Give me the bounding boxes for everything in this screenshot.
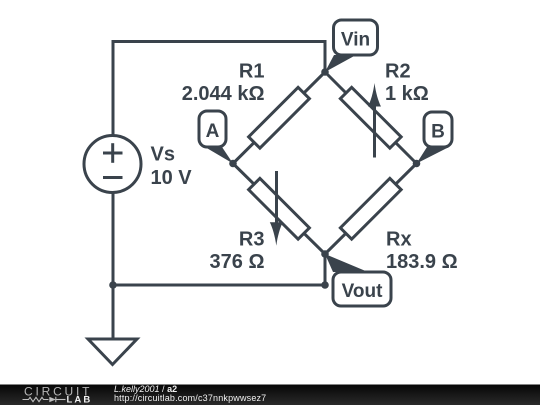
svg-text:http://circuitlab.com/c37nnkpw: http://circuitlab.com/c37nnkpwwsez7 — [114, 393, 266, 403]
svg-text:B: B — [431, 122, 445, 143]
svg-text:R2: R2 — [385, 60, 411, 82]
svg-text:R1: R1 — [239, 60, 265, 82]
svg-text:Rx: Rx — [386, 228, 412, 250]
svg-text:R3: R3 — [239, 228, 265, 250]
svg-text:A: A — [206, 121, 220, 142]
svg-text:183.9 Ω: 183.9 Ω — [386, 251, 458, 273]
svg-text:10 V: 10 V — [151, 167, 193, 189]
svg-text:LAB: LAB — [67, 395, 93, 405]
svg-text:Vin: Vin — [341, 29, 370, 50]
svg-text:2.044 kΩ: 2.044 kΩ — [182, 83, 265, 105]
svg-text:1 kΩ: 1 kΩ — [385, 83, 429, 105]
svg-text:376 Ω: 376 Ω — [210, 251, 265, 273]
svg-text:Vs: Vs — [151, 144, 175, 166]
svg-text:Vout: Vout — [342, 281, 383, 302]
